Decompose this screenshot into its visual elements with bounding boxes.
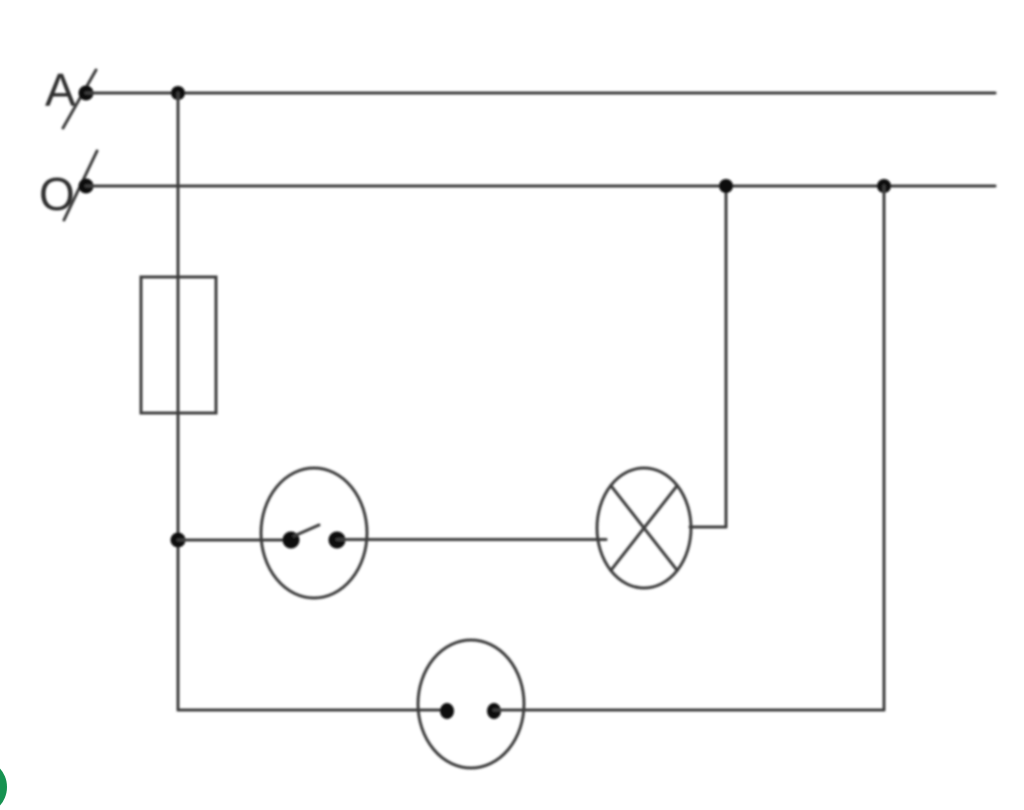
wire: from junction to switch left contact <box>178 539 291 542</box>
node: junction at switch branch <box>171 533 186 548</box>
wire: vertical drop from bus A through fuse to bottom rail <box>177 93 180 710</box>
node: junction of drop wire on bus A <box>171 86 185 100</box>
svg-text:A: A <box>45 64 76 116</box>
lamp HL cross stroke 2 <box>611 486 677 571</box>
wire: neutral bus O (horizontal) <box>86 185 995 188</box>
wire: lamp to neutral riser (horizontal stub) <box>690 526 726 529</box>
switch S right contact dot <box>329 532 346 549</box>
socket X right pin dot <box>487 703 501 719</box>
node: junction of socket riser on bus O <box>877 179 891 193</box>
svg-text:O: O <box>39 168 75 220</box>
wire: bottom rail right segment from socket right pin <box>494 709 884 712</box>
wire: socket neutral riser (vertical) <box>883 186 886 710</box>
socket X left pin dot <box>440 703 454 719</box>
switch S (circle body) <box>261 468 367 598</box>
slash mark on line A terminal <box>63 70 96 128</box>
wire: switch to lamp <box>337 538 606 541</box>
node: junction of lamp riser on bus O <box>719 179 733 193</box>
wire: bottom rail left segment to socket left pin <box>178 709 447 712</box>
fuse F (rectangle) <box>141 277 216 413</box>
node: line A start terminal dot <box>79 86 94 101</box>
slash mark on line O terminal <box>64 151 97 220</box>
switch S left contact dot <box>283 532 300 549</box>
wire: lamp neutral riser (vertical) <box>725 186 728 527</box>
socket X (circle body) <box>418 640 524 768</box>
lamp HL (circle body) <box>597 468 691 588</box>
logo: green circle badge clipped at bottom-left corner <box>0 759 7 810</box>
lamp HL cross stroke 1 <box>611 486 677 571</box>
node: line O start terminal dot <box>79 179 94 194</box>
switch S lever <box>294 525 319 536</box>
wire: phase bus A (horizontal) <box>86 92 995 95</box>
